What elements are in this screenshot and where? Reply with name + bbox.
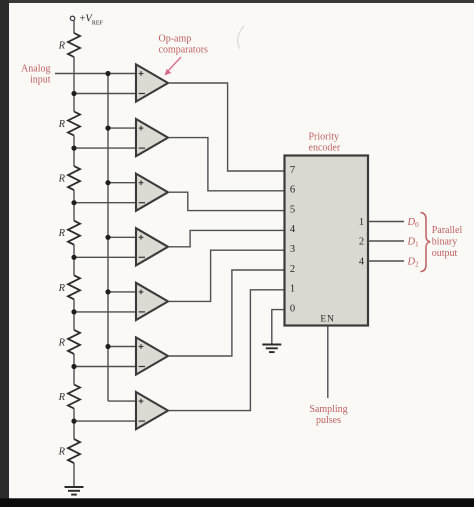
svg-text:Analog: Analog [21,64,50,75]
svg-text:5: 5 [290,204,295,215]
svg-text:R: R [58,337,66,348]
svg-text:R: R [58,283,66,294]
svg-text:R: R [58,392,66,403]
svg-text:0: 0 [290,303,295,314]
svg-text:EN: EN [320,315,334,325]
svg-text:comparators: comparators [159,45,209,56]
svg-text:R: R [58,119,66,130]
svg-text:R: R [58,447,66,458]
svg-text:7: 7 [290,165,295,176]
svg-text:encoder: encoder [309,143,341,154]
svg-text:3: 3 [290,244,295,255]
svg-text:4: 4 [290,224,296,235]
svg-text:Op-amp: Op-amp [159,34,192,45]
svg-text:2: 2 [359,236,364,247]
svg-text:R: R [58,174,66,185]
svg-text:4: 4 [359,256,365,267]
svg-text:input: input [30,75,51,86]
svg-text:R: R [58,228,66,239]
svg-text:1: 1 [290,284,295,295]
svg-text:pulses: pulses [316,415,341,426]
svg-text:binary: binary [432,237,458,248]
svg-text:2: 2 [290,264,295,275]
svg-text:6: 6 [290,185,295,196]
svg-text:Priority: Priority [309,132,340,143]
svg-text:1: 1 [359,217,364,228]
svg-text:Sampling: Sampling [309,404,347,415]
svg-text:R: R [58,41,66,52]
svg-text:Parallel: Parallel [432,225,463,236]
svg-text:output: output [432,248,458,259]
